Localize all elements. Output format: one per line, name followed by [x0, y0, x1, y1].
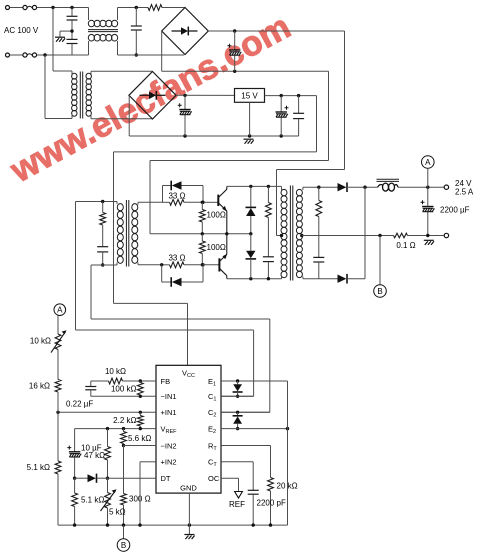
wire base to Q1: [203, 201, 218, 203]
svg-text:2.2 kΩ: 2.2 kΩ: [113, 416, 136, 425]
net A output: [422, 156, 435, 169]
capacitor 2200pF: [248, 489, 259, 491]
transformer T2 secondary: [86, 73, 91, 116]
svg-text:FB: FB: [161, 377, 171, 386]
svg-text:DT: DT: [161, 474, 171, 483]
transformer T4 core: [289, 186, 291, 281]
svg-text:20 kΩ: 20 kΩ: [277, 482, 298, 491]
wire resistor to bridge: [162, 7, 180, 9]
resistor inrush: [148, 5, 162, 11]
wire to output terminal: [398, 186, 444, 188]
capacitor after choke: [135, 8, 137, 27]
wire HV- rail: [161, 31, 163, 71]
snubber capacitor secondary: [318, 217, 320, 258]
snubber capacitor primary: [267, 218, 269, 257]
transformer T3 secondary: [132, 204, 138, 264]
diode base top: [172, 181, 182, 189]
capacitor 10uF: [74, 429, 76, 452]
wire 5.1k to rail: [57, 474, 59, 525]
wire T3 sec top: [137, 202, 139, 204]
capacitor aux output electrolytic: [280, 96, 282, 112]
wire CT line: [221, 461, 253, 463]
regulator 15V box: [235, 89, 265, 103]
resistor 33ohm top: [163, 201, 170, 203]
resistor 100ohm bottom: [201, 234, 203, 241]
wire choke bottom to bridge: [118, 54, 185, 56]
resistor 5.1k soft: [74, 478, 76, 493]
snubber capacitor drive: [102, 225, 104, 247]
wire secondary top: [303, 186, 338, 188]
wire X-cap drop: [71, 8, 73, 17]
snubber resistor primary: [267, 186, 269, 202]
choke L1 bottom winding: [88, 41, 90, 55]
wire +IN1 line: [58, 411, 156, 413]
transistor Q2: [218, 258, 220, 271]
svg-text:OC: OC: [208, 474, 220, 483]
wire base to Q2: [203, 264, 219, 266]
net B output: [379, 236, 381, 285]
terminal output plus: [444, 185, 448, 189]
wire 0V to terminal: [408, 235, 445, 237]
capacitor X1: [67, 15, 78, 17]
diode clamp 1: [237, 381, 239, 384]
transformer T4 secondary: [296, 189, 302, 277]
diode output top: [338, 183, 347, 191]
wire 15V rail to Vcc: [316, 96, 318, 152]
svg-text:A: A: [425, 158, 431, 167]
svg-text:100Ω: 100Ω: [207, 243, 226, 252]
svg-text:2.5 A: 2.5 A: [455, 188, 474, 197]
svg-text:10 kΩ: 10 kΩ: [105, 367, 126, 376]
svg-text:33 Ω: 33 Ω: [168, 192, 185, 201]
transformer T2 primary: [72, 73, 77, 116]
bridge rectifier BR2: [129, 72, 176, 120]
svg-text:−IN1: −IN1: [161, 392, 177, 401]
resistor 2.2k: [139, 412, 141, 415]
svg-text:5.1 kΩ: 5.1 kΩ: [81, 496, 104, 505]
transformer T4 primary: [281, 189, 287, 277]
transistor Q1: [217, 195, 219, 206]
wire E2 line: [221, 428, 288, 430]
fuse F2: [10, 54, 23, 56]
svg-text:5 kΩ: 5 kΩ: [109, 508, 126, 517]
wire FB line: [91, 380, 109, 382]
wire 16k to 5.1k: [57, 392, 59, 412]
wire collector line bottom: [227, 278, 282, 280]
svg-text:16 kΩ: 16 kΩ: [29, 382, 50, 391]
wire choke to bridge: [118, 7, 149, 9]
resistor 5.1k chain: [55, 461, 61, 474]
wire -IN1 line: [91, 395, 156, 397]
wire 15V output: [265, 95, 317, 97]
svg-text:0.1 Ω: 0.1 Ω: [396, 241, 415, 250]
ground IC: [184, 535, 194, 540]
wire T3 sec bottom: [137, 263, 139, 265]
wire aux secondary bottom: [91, 118, 153, 120]
capacitor aux output ceramic: [298, 96, 300, 114]
inductor output: [377, 178, 400, 180]
wire 15V gnd pin: [249, 102, 251, 136]
net B feedback: [123, 525, 125, 539]
net A feedback: [54, 304, 66, 316]
svg-text:10 kΩ: 10 kΩ: [30, 337, 51, 346]
svg-text:5.1 kΩ: 5.1 kΩ: [27, 463, 50, 472]
wire aux secondary top: [91, 70, 153, 72]
IC U1 box: [156, 365, 221, 493]
wire mains to aux primary: [52, 8, 54, 72]
resistor 300ohm: [121, 494, 127, 506]
svg-text:2200 pF: 2200 pF: [257, 499, 286, 508]
potentiometer 10k: [55, 334, 61, 350]
svg-text:2200 µF: 2200 µF: [440, 206, 470, 215]
transformer T2 core: [79, 72, 81, 119]
ground output: [424, 240, 434, 245]
wire C2 line: [221, 411, 270, 413]
svg-text:33 Ω: 33 Ω: [168, 254, 185, 263]
svg-text:+IN1: +IN1: [161, 408, 177, 417]
wire GND pin: [188, 493, 190, 534]
wire E1 line: [221, 380, 288, 382]
svg-text:A: A: [57, 306, 63, 315]
wire Vref line: [75, 428, 156, 430]
svg-text:−IN2: −IN2: [161, 441, 177, 450]
wire C1 line: [221, 395, 254, 397]
wire pot to 16k: [57, 350, 59, 380]
wire DT line: [108, 477, 157, 479]
diode flyback bottom: [250, 234, 252, 251]
wire X-cap mid to ground: [60, 30, 72, 32]
watermark www.elecfans.com: [3, 7, 297, 191]
diode flyback top: [250, 186, 252, 207]
svg-text:REF: REF: [229, 500, 245, 509]
wire base loop bottom: [161, 265, 163, 282]
capacitor aux input: [184, 95, 186, 109]
AC input terminal bottom: [6, 53, 10, 57]
wire emitter rail: [150, 233, 251, 235]
svg-text:B: B: [121, 541, 126, 550]
wire drive primary top: [76, 201, 118, 203]
resistor 47k: [107, 429, 109, 447]
terminal output minus: [444, 233, 448, 237]
svg-text:GND: GND: [180, 484, 197, 493]
wire drive primary bottom: [116, 263, 118, 266]
diode base bottom: [172, 278, 182, 286]
bridge rectifier BR1: [162, 8, 209, 55]
capacitor 0.22uF: [90, 381, 92, 387]
svg-text:15 V: 15 V: [241, 91, 258, 100]
resistor 20k: [268, 478, 274, 492]
AC input terminal top: [6, 6, 10, 10]
capacitor HV bulk: [234, 31, 236, 50]
svg-text:5.6 kΩ: 5.6 kΩ: [128, 434, 151, 443]
diode DT: [75, 477, 88, 479]
diode clamp 2: [237, 412, 239, 416]
wire aux plus: [176, 94, 235, 96]
fuse F1: [10, 7, 23, 9]
resistor 10k FB: [109, 378, 123, 384]
choke L1 core: [88, 29, 118, 31]
wire RT line: [221, 445, 271, 447]
snubber resistor drive: [102, 202, 104, 213]
wire -IN2 line: [124, 445, 157, 447]
snubber resistor secondary: [318, 187, 320, 200]
wire base loop top: [162, 186, 164, 203]
symbol REF: [235, 492, 243, 499]
wire 0V line: [302, 235, 394, 237]
wire emitter ground drop: [287, 381, 289, 525]
wire -IN2 to 300ohm: [123, 446, 125, 494]
svg-text:AC 100 V: AC 100 V: [4, 26, 39, 35]
wire AC bottom: [37, 54, 89, 56]
choke L1 top winding: [88, 8, 90, 21]
wire aux primary return: [45, 118, 72, 120]
wire ground rail: [58, 524, 288, 526]
resistor 100ohm top: [201, 201, 204, 204]
wire diode join: [364, 187, 366, 279]
wire C1 to drive primary top: [75, 202, 77, 331]
resistor 5.6k: [123, 429, 125, 432]
potentiometer 5k: [107, 478, 109, 492]
resistor 100k: [139, 381, 141, 383]
transformer T3 core: [125, 200, 127, 267]
wire AC top: [37, 7, 89, 9]
wire HV+ rail: [208, 30, 344, 32]
ground 15V: [244, 139, 254, 144]
resistor 0.1ohm: [394, 233, 408, 238]
resistor 16k: [55, 380, 61, 393]
svg-text:B: B: [377, 287, 382, 296]
capacitor X2: [67, 38, 78, 40]
svg-text:0.22 µF: 0.22 µF: [66, 400, 93, 409]
wire C2 to drive primary bottom: [90, 265, 92, 319]
ground X-cap: [55, 37, 65, 42]
wire OC line: [221, 477, 239, 479]
svg-text:47 kΩ: 47 kΩ: [84, 451, 105, 460]
wire secondary bottom: [303, 278, 338, 280]
capacitor output 2200uF: [427, 187, 429, 206]
wire collector line top: [227, 185, 282, 187]
svg-text:100 kΩ: 100 kΩ: [111, 385, 137, 394]
resistor 33ohm bottom: [162, 264, 170, 266]
svg-text:100Ω: 100Ω: [207, 211, 226, 220]
wire aux minus rail: [128, 95, 130, 136]
diode output bottom: [338, 275, 347, 283]
svg-text:+IN2: +IN2: [161, 458, 177, 467]
wire +IN2 line: [140, 461, 156, 463]
transformer T3 primary: [117, 204, 123, 264]
